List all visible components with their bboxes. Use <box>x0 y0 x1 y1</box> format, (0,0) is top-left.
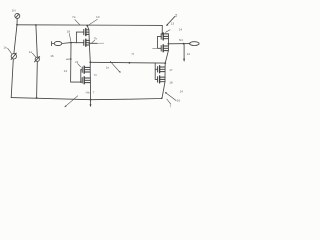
wire input to gate node <box>62 42 71 45</box>
output oval terminal <box>190 42 200 46</box>
wire right lower column <box>162 63 165 98</box>
tick gate mid <box>66 58 71 60</box>
wire middle column <box>87 26 90 63</box>
wire source to rail <box>16 18 18 24</box>
leader 1e <box>110 61 120 73</box>
leader 1a <box>32 53 35 57</box>
wire branch B lower <box>36 61 39 98</box>
svg-text:5: 5 <box>175 14 177 18</box>
wire lower column <box>89 62 91 99</box>
svg-text:1a: 1a <box>29 50 33 54</box>
svg-text:1e: 1e <box>106 65 110 69</box>
wire right column upper <box>165 34 168 63</box>
svg-text:7c: 7c <box>94 73 98 77</box>
svg-text:7a: 7a <box>72 15 76 19</box>
current source 1b <box>11 53 17 60</box>
leader 7d <box>165 92 176 101</box>
wire gate lead M2 <box>76 42 83 44</box>
svg-text:18: 18 <box>67 30 71 34</box>
wire gate line right upper <box>158 36 162 48</box>
leader 18 <box>69 33 71 41</box>
svg-text:16: 16 <box>177 99 181 103</box>
node right lower top <box>164 62 166 64</box>
wire gate line lower pair <box>80 70 82 82</box>
svg-text:21: 21 <box>75 60 79 64</box>
wire gate line right lower <box>155 63 157 79</box>
wire branch B upper <box>36 25 37 57</box>
wire y63 horizontal <box>90 61 165 64</box>
svg-text:16: 16 <box>50 54 54 58</box>
node gate corner <box>80 81 82 83</box>
node rail mid <box>86 25 88 27</box>
leader 21 <box>78 64 81 67</box>
svg-text:H: H <box>132 52 134 56</box>
current source 1a <box>34 56 40 62</box>
leader 10 <box>89 19 98 25</box>
transistor M2 <box>84 39 90 46</box>
svg-text:1b: 1b <box>3 46 7 50</box>
wire left branch lower <box>11 59 13 98</box>
transistor M4 <box>82 77 90 84</box>
svg-text:7b: 7b <box>94 37 98 41</box>
input terminal <box>51 42 53 46</box>
transistor M5 <box>161 33 168 40</box>
wire oval lead left <box>52 43 55 45</box>
svg-text:14: 14 <box>180 90 184 94</box>
svg-text:17: 17 <box>169 68 173 72</box>
wire M1-M2 tap right <box>89 42 97 44</box>
wire gate link upper pair <box>71 32 84 43</box>
node rail B <box>35 24 37 26</box>
svg-text:7: 7 <box>170 105 172 109</box>
node y63 mid <box>129 62 131 64</box>
node output tap <box>183 43 185 45</box>
leader 7a <box>75 20 80 25</box>
svg-text:18: 18 <box>169 81 173 85</box>
transistor M3 <box>82 66 90 73</box>
source V1 circle <box>15 13 20 18</box>
node bottom B <box>36 97 38 99</box>
node y62 <box>89 61 91 63</box>
wire gate lead M3 <box>81 69 82 71</box>
wire gate lead M7 <box>155 68 157 70</box>
node output <box>168 43 170 45</box>
leader stub bottom <box>167 99 171 104</box>
wire tap faint tail <box>97 42 104 44</box>
svg-text:14: 14 <box>64 69 68 73</box>
node top-left junction <box>16 24 18 26</box>
node bottom mid <box>90 99 92 101</box>
node input junction <box>70 42 72 44</box>
wire bottom rail <box>11 98 161 100</box>
input oval <box>54 41 62 45</box>
svg-text:10: 10 <box>96 15 100 19</box>
transistor M1 <box>84 29 89 36</box>
transistor M6 <box>161 45 168 52</box>
leader 14b <box>165 30 170 33</box>
svg-text:1N: 1N <box>12 8 16 12</box>
wire gate stub left <box>153 47 158 49</box>
leader Hb <box>64 96 77 107</box>
svg-text:14: 14 <box>179 27 183 31</box>
wire gate column down <box>71 43 81 83</box>
node gate mid <box>70 58 72 60</box>
wire rail corner down right <box>161 25 163 34</box>
svg-text:N4: N4 <box>179 38 183 42</box>
leader 1b <box>8 48 12 53</box>
svg-text:12: 12 <box>187 52 191 56</box>
ground arrow bottom mid <box>90 100 92 107</box>
node rail end <box>161 98 163 100</box>
wire output <box>168 43 190 45</box>
transistor M8 <box>158 76 165 83</box>
node tap <box>89 43 91 45</box>
leader 7b <box>92 40 95 43</box>
svg-text:13: 13 <box>171 22 175 26</box>
wire left branch upper <box>14 25 17 54</box>
wire top rail <box>17 24 162 27</box>
arrow 5 <box>166 16 175 26</box>
transistor M7 <box>158 66 166 73</box>
svg-text:Hb: Hb <box>86 90 90 94</box>
arrow current 12 <box>183 44 185 62</box>
svg-text:7: 7 <box>93 91 95 95</box>
